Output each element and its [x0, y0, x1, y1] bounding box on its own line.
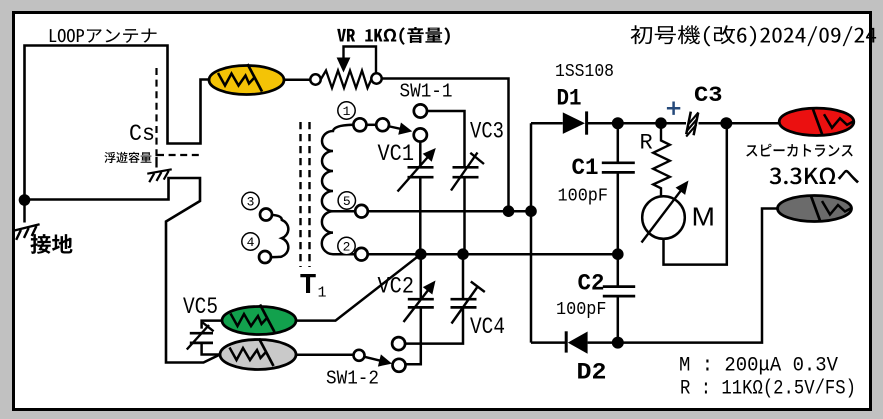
inductor antenna coil (yellow oval) [209, 64, 284, 95]
node VC4 top [457, 248, 469, 260]
node B [525, 205, 537, 217]
label VC5 [183, 294, 218, 320]
wire D2 out to gray oval [618, 209, 778, 343]
svg-text:100pF: 100pF [558, 186, 609, 207]
resistor R [653, 123, 670, 196]
svg-text:VC3: VC3 [470, 119, 504, 145]
potentiometer VR wiper [337, 47, 376, 74]
transformer T1 primary winding [271, 215, 289, 257]
wire R top to C3 [661, 122, 686, 125]
node VC2 top [415, 248, 427, 260]
label C1 [572, 155, 599, 181]
node C1 bottom [612, 248, 624, 260]
wire ground rail to VC5 branch [25, 178, 221, 363]
label 1SS108 [555, 62, 614, 82]
label VC4 [470, 314, 505, 340]
svg-text:4: 4 [247, 235, 255, 250]
capacitor C3 electrolytic [686, 112, 698, 137]
label C1 value [558, 186, 609, 207]
capacitor C2 [603, 254, 635, 342]
potentiometer VR left terminal [310, 74, 320, 84]
svg-text:T: T [300, 269, 317, 302]
capacitor VC2 arrow [404, 281, 436, 323]
capacitor VC1 [408, 142, 434, 255]
svg-text:SW1-1: SW1-1 [400, 81, 453, 103]
switch SW1-2 lower contact [393, 359, 406, 372]
label R [640, 131, 653, 156]
svg-text:3: 3 [247, 195, 255, 210]
label C3 [694, 82, 723, 108]
label LOOPアンテナ [50, 28, 157, 42]
wire light gray oval to SW1-2 [296, 354, 354, 357]
switch SW1-2 arm [365, 354, 393, 366]
wire tap5 stub [333, 210, 355, 213]
label T1 [300, 269, 327, 302]
inductor tuning coil (green oval) [222, 305, 296, 335]
wire tap2 stub [333, 253, 355, 256]
wire C3 to node D [699, 122, 727, 125]
label VC2 [378, 274, 415, 300]
capacitor VC5 [190, 321, 222, 355]
label circled 4 [242, 233, 259, 250]
svg-text:VC5: VC5 [183, 294, 218, 320]
svg-text:R: R [640, 131, 653, 156]
svg-text:VC2: VC2 [378, 274, 415, 300]
wire D1 out to R top [618, 122, 661, 125]
transformer T1 secondary winding [322, 125, 354, 254]
diode D2 [531, 331, 618, 354]
svg-text:Cs: Cs [129, 121, 155, 147]
wire tap5 rail [368, 210, 531, 213]
node R top [655, 117, 667, 129]
label D2 [577, 360, 607, 387]
switch SW1-1 arm [388, 122, 413, 134]
label M [692, 202, 716, 232]
wire junction to earth [23, 200, 26, 223]
resistor speaker transformer (red oval) [779, 108, 854, 135]
svg-text:R : 11KΩ(2.5V/FS): R : 11KΩ(2.5V/FS) [680, 378, 856, 401]
svg-text:M : 200μA 0.3V: M : 200μA 0.3V [679, 355, 839, 378]
svg-text:C1: C1 [572, 155, 599, 181]
wire VR to node A [382, 79, 509, 212]
loop antenna box [25, 46, 210, 200]
node D1 out [612, 117, 624, 129]
diode D1 [531, 111, 618, 134]
svg-text:VC1: VC1 [378, 141, 415, 167]
node A [503, 205, 515, 217]
inductor coupling coil (light gray oval) [220, 339, 296, 370]
wire yellow oval to VR [284, 79, 311, 82]
label C2 [578, 271, 605, 297]
switch SW1-2 upper contact [392, 337, 405, 350]
svg-text:SW1-2: SW1-2 [326, 368, 379, 390]
label circled 2 [338, 237, 355, 254]
label SW1-2 [326, 368, 379, 390]
svg-text:D2: D2 [577, 360, 607, 387]
label Cs [129, 121, 155, 147]
capacitor VC5 trimmer arrow [187, 323, 214, 350]
node ground junction [19, 194, 31, 206]
svg-text:C3: C3 [694, 82, 723, 108]
svg-text:M: M [692, 202, 716, 232]
terminal tap 2 [355, 248, 368, 261]
label circled 3 [242, 192, 259, 209]
terminal tap 3 [260, 209, 272, 221]
label C3 plus [667, 102, 680, 115]
wire detector vertical [530, 123, 533, 342]
label 浮遊容量 [104, 152, 151, 163]
label meter spec [679, 355, 839, 378]
capacitor Cs dashed vertical [155, 68, 157, 157]
potentiometer VR body [321, 71, 372, 89]
capacitor VC3 trimmer arrow [451, 153, 484, 191]
svg-text:1SS108: 1SS108 [555, 62, 614, 82]
label resistor spec [680, 378, 856, 401]
resistor earphone (dark gray oval) [778, 196, 852, 223]
node D [720, 117, 732, 129]
svg-text:5: 5 [343, 194, 351, 209]
wire tap1 link [366, 124, 376, 127]
capacitor C1 [602, 123, 635, 254]
svg-text:1: 1 [343, 104, 351, 119]
label C2 value [556, 299, 607, 320]
terminal tap 5 [355, 205, 368, 218]
node D2 out [612, 337, 624, 349]
label VC3 [470, 119, 504, 145]
svg-text:D1: D1 [557, 86, 582, 112]
wire node D to speaker transformer [726, 122, 780, 125]
capacitor VC3 [453, 167, 479, 254]
wire SW1-1 to VC3 [427, 111, 465, 167]
label 接地 [30, 234, 72, 254]
terminal tap 1 [353, 118, 366, 131]
capacitor VC4 trimmer arrow [452, 282, 485, 324]
wire green oval to VC2 top [297, 254, 421, 320]
switch SW1-1 lower contact [414, 128, 427, 141]
wire Cs stub [155, 157, 157, 168]
svg-text:1: 1 [318, 285, 327, 302]
label circled 1 [338, 102, 355, 119]
wire meter loop [664, 123, 727, 264]
capacitor VC2 [406, 254, 434, 364]
label スピーカトランス [746, 144, 853, 157]
potentiometer VR right terminal [371, 73, 381, 83]
switch SW1-2 pole [354, 350, 365, 361]
label 3.3KΩへ [770, 168, 859, 185]
label VC1 [378, 141, 415, 167]
ground Cs earth symbol [147, 169, 173, 182]
switch SW1-1 upper contact [414, 104, 427, 117]
label circled 5 [338, 192, 355, 209]
label VR 1KΩ(音量) [337, 27, 450, 45]
label 初号機(改6)2024/09/24 [631, 25, 877, 46]
ground earth symbol [13, 224, 41, 240]
meter M [642, 181, 689, 243]
terminal tap 4 [259, 251, 271, 263]
capacitor VC4 [405, 254, 476, 343]
wire tap2 rail [368, 253, 618, 256]
terminal tap 1b [376, 118, 389, 131]
label D1 [557, 86, 582, 112]
capacitor VC1 arrow [398, 148, 436, 192]
svg-text:VC4: VC4 [470, 314, 505, 340]
svg-text:C2: C2 [578, 271, 605, 297]
label SW1-1 [400, 81, 453, 103]
transformer T1 core [301, 122, 310, 267]
svg-text:2: 2 [343, 240, 351, 255]
capacitor Cs dashed horizontal [157, 154, 200, 156]
svg-text:100pF: 100pF [556, 299, 607, 320]
